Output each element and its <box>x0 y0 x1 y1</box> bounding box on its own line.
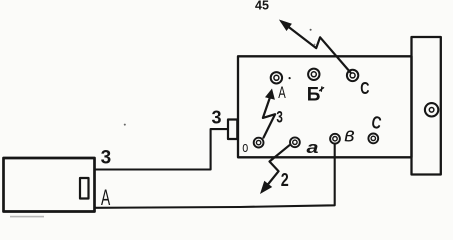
svg-text:3: 3 <box>276 108 283 127</box>
terminal в outer <box>330 134 340 144</box>
terminal C top inner <box>350 73 355 78</box>
svg-text:3: 3 <box>212 108 222 128</box>
terminal C bottom inner <box>371 136 375 140</box>
terminal A outer <box>271 72 282 83</box>
wire A (left box to terminal в) <box>96 145 335 208</box>
speck below left box <box>10 216 44 218</box>
svg-text:o: o <box>242 139 248 156</box>
stray dot near terminal A <box>289 77 291 79</box>
middle box (switchboard) <box>238 56 412 157</box>
lightning arrow 2 shaft <box>263 145 289 190</box>
terminal B outer <box>308 69 319 80</box>
terminal o inner <box>256 140 260 144</box>
svg-text:2: 2 <box>281 170 289 190</box>
right box (antenna coupler) <box>412 37 441 175</box>
svg-text:45: 45 <box>255 0 269 13</box>
tick mark right of label Б <box>320 87 324 91</box>
lightning arrow 3 shaft <box>263 94 275 138</box>
terminal B inner <box>311 72 316 77</box>
left box inner terminal rectangle <box>80 178 89 199</box>
wire 3 (left box to terminal block) <box>96 129 228 169</box>
svg-text:в: в <box>344 124 354 146</box>
terminal A inner <box>274 75 279 80</box>
svg-text:C: C <box>360 78 369 98</box>
right box terminal inner <box>429 108 434 113</box>
speck above middle box <box>310 29 312 31</box>
left box (source unit) <box>4 158 95 212</box>
arrowhead of arrow 2 <box>260 181 272 194</box>
speck left of terminal block <box>124 124 126 126</box>
svg-text:3: 3 <box>101 148 112 169</box>
terminal o outer <box>254 138 264 148</box>
terminal в inner <box>333 137 337 141</box>
svg-text:A: A <box>278 84 286 102</box>
lightning arrow 45 shaft <box>282 22 351 73</box>
svg-text:A: A <box>101 185 110 210</box>
terminal C bottom outer <box>368 134 378 144</box>
right box terminal outer <box>425 103 438 116</box>
terminal a inner <box>293 140 297 144</box>
svg-text:Б: Б <box>307 85 321 106</box>
speck above middle box 2 <box>314 44 316 46</box>
arrowhead of arrow 45 <box>279 20 292 32</box>
terminal a outer <box>290 137 300 147</box>
svg-text:a: a <box>307 138 319 157</box>
terminal C top outer <box>347 70 358 81</box>
arrowhead of arrow 3 <box>265 89 275 100</box>
terminal block on middle box left edge <box>228 120 237 140</box>
